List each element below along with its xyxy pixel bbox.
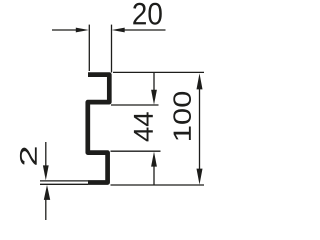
dim 100: label (rotated) xyxy=(173,92,191,140)
dim 44: label (rotated) xyxy=(134,112,153,141)
dim 20: left arrow xyxy=(76,28,89,33)
dim 44: bottom extension line xyxy=(111,150,161,152)
dim 2: lower leader xyxy=(45,200,47,221)
dim 20: right arrow xyxy=(112,28,125,33)
dim 100: bottom arrow xyxy=(197,169,203,185)
dim 2: upper arrow (points down) xyxy=(43,165,49,180)
dim 100: top arrow xyxy=(197,73,203,89)
dim 20: left extension line xyxy=(88,25,90,71)
dim 20: left leader line xyxy=(52,29,77,31)
dim 2: extension double lines (lip faces extended) xyxy=(40,180,88,182)
dim 44: bottom arrow (points up) xyxy=(151,152,157,167)
dim 20: right extension line xyxy=(111,25,113,73)
dim 44: top arrow (points down) xyxy=(151,90,157,105)
dim 2: label (rotated) xyxy=(20,147,37,164)
dim 44: upper leader xyxy=(153,72,155,91)
dim 20: label xyxy=(133,3,162,25)
dim 100: bottom extension line xyxy=(111,184,205,186)
dim 44: top extension line xyxy=(111,104,159,106)
dim 44: lower leader xyxy=(153,166,155,185)
profile cross-section (thick outline) xyxy=(88,75,110,183)
dim 100: dim line xyxy=(199,87,201,171)
dim 2: lower arrow (points up) xyxy=(44,185,50,200)
dim 100: top extension line xyxy=(113,71,204,73)
dim 20: right dim line xyxy=(124,29,166,31)
dim 2: upper leader xyxy=(45,142,47,166)
